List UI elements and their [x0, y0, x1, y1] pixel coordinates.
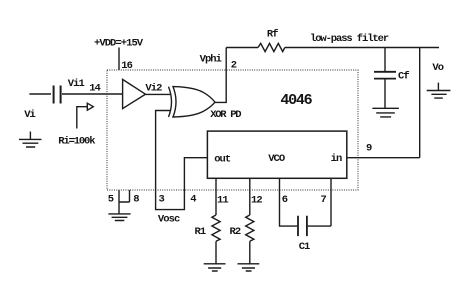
svg-text:9: 9 — [366, 142, 372, 154]
svg-text:Vosc: Vosc — [158, 214, 180, 226]
svg-text:C1: C1 — [299, 241, 310, 253]
svg-text:Vi: Vi — [24, 109, 35, 121]
svg-text:Vi1: Vi1 — [68, 78, 85, 90]
svg-text:VCO: VCO — [268, 153, 285, 165]
svg-text:2: 2 — [231, 60, 237, 72]
svg-text:+VDD=+15V: +VDD=+15V — [94, 38, 144, 50]
svg-text:Vi2: Vi2 — [145, 82, 162, 94]
svg-text:3: 3 — [159, 194, 165, 206]
svg-text:11: 11 — [217, 195, 228, 207]
svg-text:R2: R2 — [230, 226, 241, 238]
svg-text:7: 7 — [321, 194, 327, 206]
svg-text:16: 16 — [121, 60, 132, 72]
svg-text:12: 12 — [251, 195, 262, 207]
svg-text:5: 5 — [108, 194, 114, 206]
svg-text:8: 8 — [133, 194, 139, 206]
svg-text:Rf: Rf — [267, 29, 278, 41]
svg-text:XOR PD: XOR PD — [210, 109, 241, 121]
svg-text:Ri=100k: Ri=100k — [58, 136, 95, 148]
svg-text:out: out — [214, 154, 231, 166]
svg-text:Vo: Vo — [432, 62, 443, 74]
svg-text:Cf: Cf — [398, 71, 409, 83]
svg-text:4046: 4046 — [280, 92, 312, 109]
svg-text:Vphi: Vphi — [200, 53, 222, 65]
svg-text:in: in — [331, 153, 342, 165]
svg-text:R1: R1 — [195, 226, 206, 238]
svg-text:6: 6 — [282, 194, 288, 206]
svg-text:14: 14 — [89, 83, 100, 95]
svg-text:low-pass filter: low-pass filter — [310, 33, 389, 45]
svg-text:4: 4 — [190, 194, 196, 206]
